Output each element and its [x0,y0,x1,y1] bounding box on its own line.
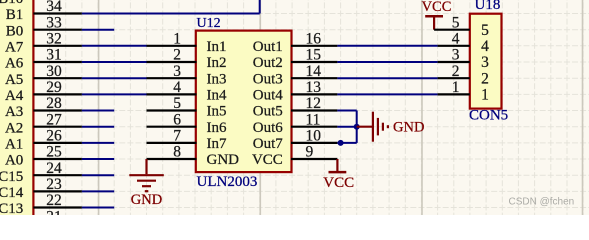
svg-text:ULN2003: ULN2003 [197,174,258,190]
svg-text:Out1: Out1 [253,39,283,55]
svg-text:31: 31 [46,47,62,64]
svg-text:1: 1 [452,79,460,96]
svg-text:In6: In6 [207,120,227,136]
svg-text:A4: A4 [5,88,24,104]
svg-text:34: 34 [46,0,62,15]
svg-text:1: 1 [481,87,489,104]
svg-text:C14: C14 [0,185,24,201]
svg-text:16: 16 [306,31,322,48]
svg-text:A0: A0 [5,153,23,169]
svg-text:A5: A5 [5,72,23,88]
svg-text:In7: In7 [207,136,227,152]
svg-text:2: 2 [173,47,181,64]
svg-text:A2: A2 [5,120,23,136]
svg-text:Out6: Out6 [253,120,284,136]
svg-text:In4: In4 [207,88,227,104]
svg-text:GND: GND [393,120,424,136]
svg-text:B0: B0 [6,23,24,39]
svg-text:32: 32 [46,31,62,48]
svg-text:1: 1 [173,31,181,48]
svg-text:In2: In2 [207,55,227,71]
svg-text:10: 10 [306,128,322,145]
svg-text:4: 4 [452,31,460,48]
svg-text:Out7: Out7 [253,136,284,152]
svg-text:9: 9 [306,144,314,161]
svg-text:12: 12 [306,95,322,112]
svg-text:22: 22 [46,192,62,209]
svg-text:7: 7 [173,128,181,145]
svg-text:B1: B1 [6,7,24,23]
svg-text:24: 24 [46,160,62,177]
svg-text:Out2: Out2 [253,55,283,71]
svg-text:21: 21 [46,208,62,215]
svg-text:CON5: CON5 [469,108,508,124]
svg-text:3: 3 [452,47,460,64]
svg-text:VCC: VCC [422,0,452,15]
svg-text:6: 6 [173,111,181,128]
svg-text:A1: A1 [5,137,23,153]
svg-text:3: 3 [481,54,489,71]
svg-text:2: 2 [481,70,489,87]
svg-text:13: 13 [306,79,322,96]
svg-text:5: 5 [481,22,489,39]
svg-text:5: 5 [173,95,181,112]
svg-text:14: 14 [306,63,322,80]
svg-text:28: 28 [46,95,62,112]
svg-text:C13: C13 [0,201,23,215]
svg-text:A7: A7 [5,39,24,55]
svg-text:11: 11 [306,111,321,128]
svg-text:Out4: Out4 [253,88,284,104]
svg-text:U18: U18 [475,0,501,13]
svg-text:8: 8 [173,144,181,161]
svg-text:2: 2 [452,63,460,80]
svg-text:GND: GND [207,152,240,168]
svg-text:C15: C15 [0,169,23,185]
svg-text:30: 30 [46,63,62,80]
svg-text:3: 3 [173,63,181,80]
svg-text:27: 27 [46,111,62,128]
svg-text:VCC: VCC [323,175,354,191]
svg-text:In5: In5 [207,104,227,120]
svg-text:25: 25 [46,144,62,161]
svg-text:33: 33 [46,14,62,31]
svg-text:Out5: Out5 [253,104,283,120]
svg-text:23: 23 [46,176,62,193]
svg-text:GND: GND [131,192,162,208]
svg-text:4: 4 [481,38,489,55]
svg-text:26: 26 [46,128,62,145]
svg-text:VCC: VCC [252,152,283,168]
svg-text:A3: A3 [5,104,23,120]
svg-text:CSDN @fchen: CSDN @fchen [509,197,575,208]
svg-text:29: 29 [46,79,62,96]
svg-text:5: 5 [452,14,460,31]
svg-text:B10: B10 [0,0,23,7]
svg-text:A6: A6 [5,56,24,72]
svg-text:U12: U12 [197,16,221,31]
svg-text:15: 15 [306,47,322,64]
svg-text:In1: In1 [207,39,227,55]
svg-text:Out3: Out3 [253,71,283,87]
svg-text:In3: In3 [207,71,227,87]
svg-text:4: 4 [173,79,181,96]
